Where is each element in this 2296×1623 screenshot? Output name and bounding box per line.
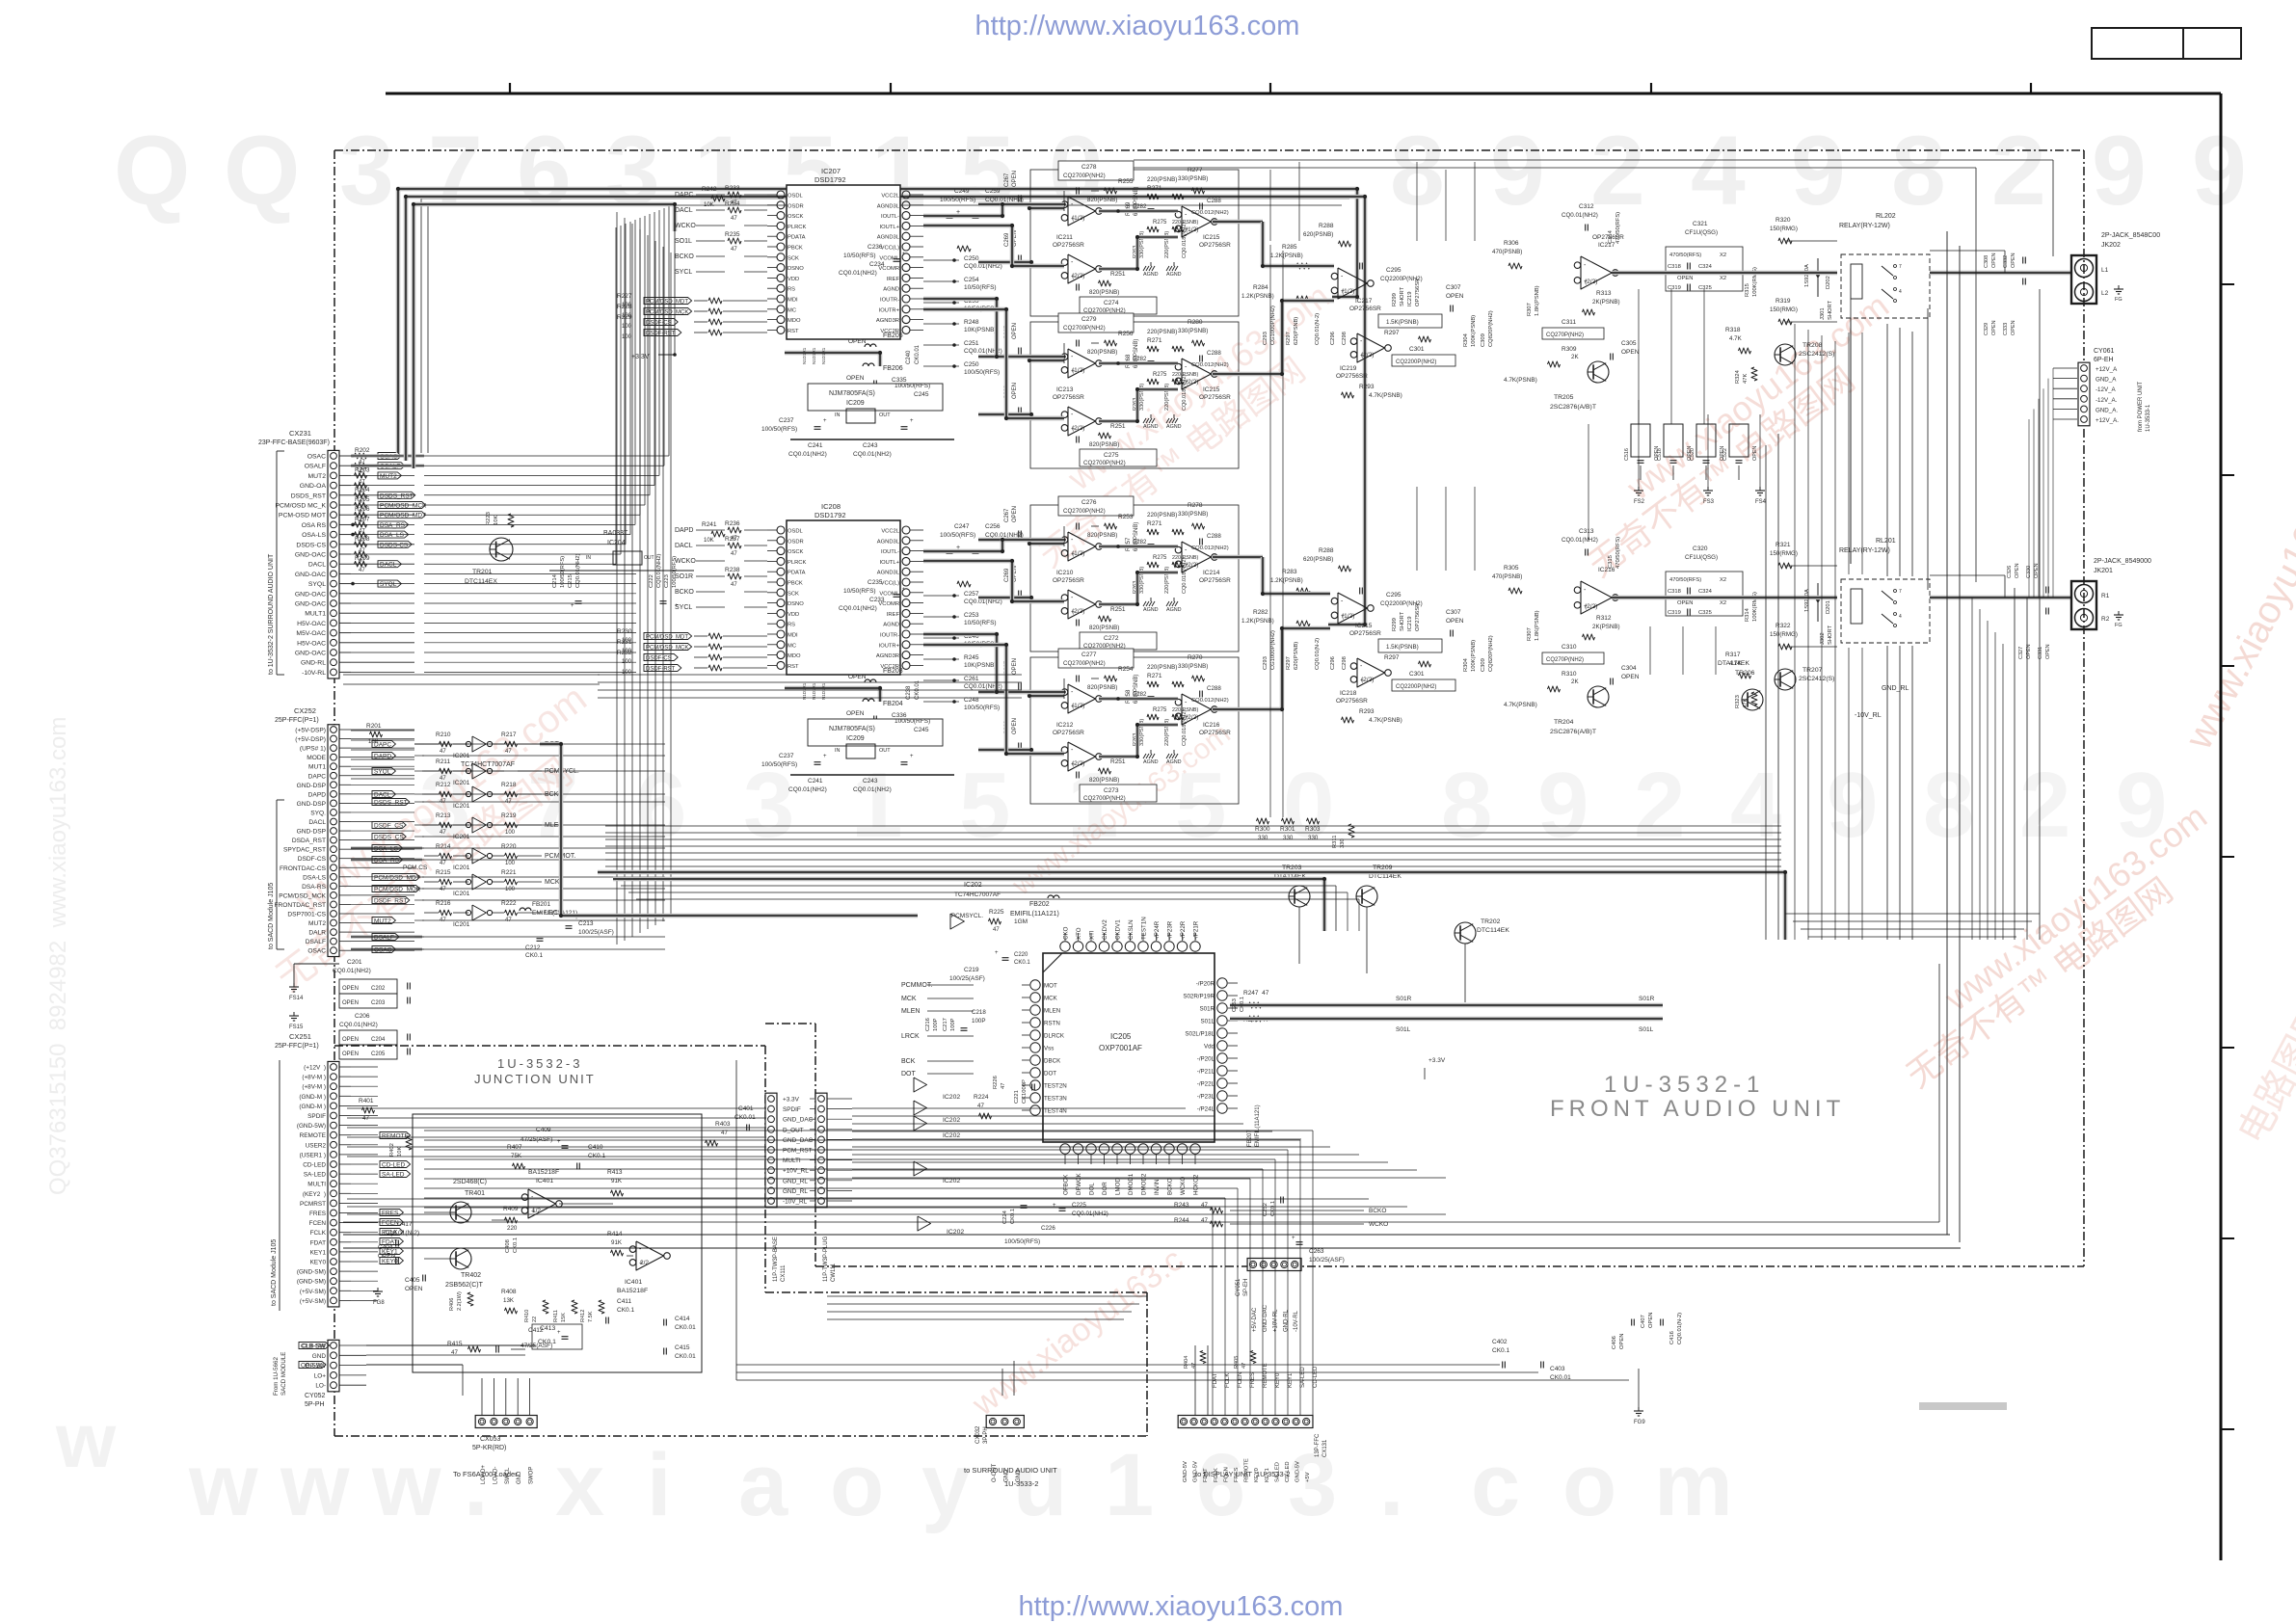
svg-text:10K(PSNB): 10K(PSNB) bbox=[964, 662, 997, 669]
svg-text:o: o bbox=[1562, 1436, 1616, 1534]
svg-text:C318: C318 bbox=[1668, 264, 1681, 270]
svg-text:470(PSNB): 470(PSNB) bbox=[1492, 573, 1522, 580]
svg-text:4: 4 bbox=[1899, 614, 1902, 620]
svg-text:CQ2700P(NH2): CQ2700P(NH2) bbox=[1083, 795, 1126, 802]
svg-text:9: 9 bbox=[1490, 116, 1545, 226]
svg-text:2.2(1W): 2.2(1W) bbox=[457, 1291, 463, 1311]
svg-text:IOUTR+: IOUTR+ bbox=[879, 307, 900, 313]
svg-text:100/50(RFS): 100/50(RFS) bbox=[964, 369, 1000, 376]
connector CY051 bbox=[1247, 1259, 1301, 1271]
svg-text:DAPC: DAPC bbox=[374, 742, 391, 749]
svg-text:100/25(ASF): 100/25(ASF) bbox=[949, 975, 985, 982]
svg-text:o: o bbox=[830, 1436, 884, 1534]
svg-text:CLB-SW: CLB-SW bbox=[301, 1344, 326, 1350]
svg-text:820(PSNB): 820(PSNB) bbox=[1089, 777, 1119, 784]
svg-text:5: 5 bbox=[959, 754, 1010, 857]
op-amp IC217 first half bbox=[1338, 268, 1367, 299]
ground FG jack201 bbox=[2118, 611, 2120, 615]
pin 40 CKDV1 bbox=[1112, 942, 1122, 951]
svg-text:FB202: FB202 bbox=[1029, 901, 1050, 908]
svg-text:330: 330 bbox=[1258, 835, 1268, 841]
svg-text:R271: R271 bbox=[1147, 520, 1162, 527]
svg-text:C256: C256 bbox=[985, 523, 1001, 530]
svg-text:w: w bbox=[371, 1436, 441, 1534]
wire right verticals bbox=[1946, 231, 1948, 1235]
svg-text:PCM/DSD_MDT: PCM/DSD_MDT bbox=[646, 635, 688, 641]
svg-text:R402: R402 bbox=[389, 1143, 395, 1157]
svg-text:IOUTR-: IOUTR- bbox=[880, 633, 899, 639]
svg-text:+: + bbox=[995, 950, 999, 956]
svg-text:R212: R212 bbox=[436, 782, 451, 788]
wire stage2 verticals upper bbox=[1638, 289, 1640, 424]
pin 37 -/P24R bbox=[1151, 942, 1161, 951]
svg-text:R244: R244 bbox=[1174, 1217, 1189, 1224]
svg-text:R288: R288 bbox=[1319, 223, 1334, 229]
svg-text:C325: C325 bbox=[1698, 285, 1712, 291]
svg-text:PCM/DSD_MCK: PCM/DSD_MCK bbox=[646, 646, 688, 652]
svg-text:R288: R288 bbox=[1319, 547, 1334, 554]
svg-text:FG: FG bbox=[2115, 623, 2122, 628]
svg-text:1: 1 bbox=[1105, 1436, 1154, 1534]
svg-text:CX032: CX032 bbox=[975, 1425, 981, 1444]
svg-text:10K: 10K bbox=[494, 516, 499, 525]
wire stage2 verticals lower bbox=[1649, 626, 1651, 675]
pin 4 RSTN bbox=[1030, 1018, 1040, 1027]
resistor R248 bbox=[957, 246, 971, 252]
svg-text:(2/2): (2/2) bbox=[1186, 379, 1198, 386]
svg-text:620(PSNB): 620(PSNB) bbox=[1303, 556, 1333, 563]
pin 8 bbox=[777, 264, 785, 272]
wires junction amp bbox=[424, 1211, 450, 1213]
svg-text:DOT: DOT bbox=[1044, 1071, 1056, 1078]
svg-text:-/P21L: -/P21L bbox=[1197, 1069, 1215, 1076]
svg-text:DSDS_RST: DSDS_RST bbox=[291, 492, 326, 499]
pin 10 bbox=[777, 284, 785, 292]
svg-text:GND-DSP: GND-DSP bbox=[297, 801, 327, 808]
capacitor C272 bbox=[1076, 620, 1078, 626]
svg-text:http://www.xiaoyu163.com: http://www.xiaoyu163.com bbox=[1019, 1591, 1344, 1622]
svg-text:C257: C257 bbox=[964, 591, 979, 598]
svg-text:R242: R242 bbox=[702, 186, 717, 193]
svg-text:6: 6 bbox=[517, 116, 572, 226]
svg-text:FS3: FS3 bbox=[1703, 499, 1715, 505]
svg-text:C295: C295 bbox=[1386, 592, 1402, 599]
transistor TR402 2SB562 bbox=[450, 1248, 471, 1269]
pin 9 bbox=[777, 274, 785, 281]
svg-text:R251: R251 bbox=[1110, 271, 1126, 278]
pin 31 S01R bbox=[1217, 1003, 1227, 1013]
svg-text:OPEN: OPEN bbox=[1012, 323, 1018, 339]
wire horizontal rows y1408-1432 bbox=[736, 1364, 1500, 1366]
svg-text:220(PSNB): 220(PSNB) bbox=[1164, 384, 1170, 411]
pin 23 -/P24L bbox=[1217, 1104, 1227, 1113]
svg-text:C217: C217 bbox=[943, 1018, 948, 1031]
svg-text:GND_RL: GND_RL bbox=[783, 1178, 808, 1184]
svg-text:R231: R231 bbox=[617, 639, 632, 646]
svg-text:CG1000P(NH2): CG1000P(NH2) bbox=[1270, 630, 1276, 670]
svg-text:SYQL: SYQL bbox=[380, 581, 397, 588]
junction dots bbox=[351, 454, 355, 458]
svg-text:C233: C233 bbox=[869, 597, 885, 603]
ground FG9 bbox=[1638, 1407, 1640, 1411]
svg-text:R285: R285 bbox=[1282, 244, 1297, 251]
svg-text:75K: 75K bbox=[511, 1153, 522, 1159]
svg-text:OPEN: OPEN bbox=[1621, 674, 1640, 680]
svg-text:CK0.1: CK0.1 bbox=[1010, 1209, 1016, 1224]
svg-text:3: 3 bbox=[605, 116, 660, 226]
svg-text:OPEN: OPEN bbox=[1648, 1313, 1654, 1328]
svg-text:1U-3532-3: 1U-3532-3 bbox=[497, 1056, 582, 1071]
buffer IC201 bbox=[472, 874, 486, 890]
svg-text:IN: IN bbox=[835, 748, 841, 754]
svg-text:S01R: S01R bbox=[1639, 996, 1655, 1002]
svg-text:TR402: TR402 bbox=[461, 1272, 481, 1279]
svg-text:MDO: MDO bbox=[788, 318, 801, 324]
svg-text:(GND-M ): (GND-M ) bbox=[299, 1094, 326, 1101]
svg-text:CW111: CW111 bbox=[831, 1263, 837, 1282]
svg-text:1U-3532-1: 1U-3532-1 bbox=[1604, 1072, 1765, 1098]
wire bundle CX252 to right bbox=[351, 730, 414, 732]
svg-text:H5V-OAC: H5V-OAC bbox=[297, 621, 326, 627]
svg-text:VDD: VDD bbox=[788, 612, 799, 618]
svg-text:R234: R234 bbox=[725, 200, 740, 207]
svg-text:GND-DSP: GND-DSP bbox=[297, 783, 327, 789]
svg-text:XTI: XTI bbox=[1089, 930, 1096, 940]
svg-text:C250: C250 bbox=[964, 255, 979, 262]
svg-text:AGND: AGND bbox=[1143, 607, 1159, 613]
bus S01R S01L bbox=[1230, 1003, 1663, 1008]
svg-text:CQ0.01(NH2): CQ0.01(NH2) bbox=[788, 451, 827, 458]
buffer IC201 bbox=[472, 848, 486, 864]
svg-text:DMOD2: DMOD2 bbox=[1141, 1173, 1148, 1195]
svg-text:CQ0.01(NH2): CQ0.01(NH2) bbox=[853, 786, 892, 793]
wire verticals far right column bbox=[1971, 598, 1973, 940]
svg-text:QQ376315150 8924982 www.xiao: QQ376315150 8924982 www.xiaoyu163.com bbox=[45, 717, 71, 1195]
svg-text:100/50(RFS): 100/50(RFS) bbox=[894, 383, 930, 389]
svg-text:DSDF-RST: DSDF-RST bbox=[646, 332, 676, 337]
svg-text:-10V_RL: -10V_RL bbox=[783, 1199, 808, 1206]
wires junction bottom bbox=[366, 1344, 535, 1346]
pin 38 TEST1N bbox=[1138, 942, 1148, 951]
svg-text:C307: C307 bbox=[1446, 609, 1461, 616]
svg-text:C253: C253 bbox=[1232, 998, 1238, 1012]
svg-text:C223: C223 bbox=[664, 574, 670, 588]
pin 1 bbox=[777, 191, 785, 199]
svg-text:NJM7805FA(S): NJM7805FA(S) bbox=[829, 390, 875, 397]
resistor R255 bbox=[1105, 188, 1117, 194]
svg-text:2SC2412(S): 2SC2412(S) bbox=[1799, 676, 1834, 682]
pin 8 bbox=[777, 599, 785, 607]
svg-text:CQ0.01(N-2): CQ0.01(N-2) bbox=[1315, 638, 1321, 670]
svg-text:C319: C319 bbox=[1668, 285, 1681, 291]
svg-text:C267: C267 bbox=[1004, 508, 1010, 522]
svg-text:MCK: MCK bbox=[1044, 996, 1058, 1002]
svg-text:-/P20L: -/P20L bbox=[1197, 1056, 1215, 1063]
wire TR transistors down bbox=[1298, 907, 1300, 964]
pin 1 MOT bbox=[1030, 980, 1040, 990]
svg-text:IC219: IC219 bbox=[1407, 292, 1413, 306]
svg-text:OPEN: OPEN bbox=[2015, 563, 2020, 578]
svg-text:C273: C273 bbox=[1104, 787, 1119, 794]
svg-text:R313: R313 bbox=[1596, 290, 1612, 297]
svg-text:CKDV2: CKDV2 bbox=[1102, 919, 1108, 940]
svg-text:330(PSNB): 330(PSNB) bbox=[1178, 175, 1208, 182]
svg-text:GND-5V: GND-5V bbox=[1295, 1461, 1301, 1482]
svg-text:+3.3V: +3.3V bbox=[783, 1097, 800, 1104]
svg-text:C333: C333 bbox=[2003, 323, 2009, 335]
pin 7 bbox=[777, 253, 785, 261]
svg-text:(2/2): (2/2) bbox=[1361, 352, 1374, 359]
svg-text:C278: C278 bbox=[1081, 164, 1097, 171]
resistor R211 bbox=[440, 768, 452, 774]
svg-text:100: 100 bbox=[622, 324, 632, 330]
svg-text:OFBCK: OFBCK bbox=[1063, 1174, 1070, 1195]
svg-text:100/50(RFS): 100/50(RFS) bbox=[761, 426, 797, 433]
resistors middle bbox=[1147, 681, 1159, 687]
analog ground bbox=[1143, 418, 1146, 423]
svg-text:C324: C324 bbox=[1698, 264, 1713, 270]
svg-text:330: 330 bbox=[1283, 835, 1294, 841]
svg-text:CY051: CY051 bbox=[1236, 1278, 1241, 1296]
pin 11 TEST4N bbox=[1030, 1105, 1040, 1115]
svg-text:OP2756SR: OP2756SR bbox=[1053, 394, 1084, 401]
svg-text:BCKO: BCKO bbox=[1369, 1208, 1386, 1214]
wire extra band lines bbox=[628, 891, 1348, 893]
svg-text:(+12V ): (+12V ) bbox=[304, 1065, 326, 1072]
svg-text:R312: R312 bbox=[1596, 615, 1612, 622]
svg-text:PCM/DSD_MCK: PCM/DSD_MCK bbox=[279, 892, 326, 899]
svg-text:w: w bbox=[280, 1436, 350, 1534]
svg-text:FCEN: FCEN bbox=[309, 1220, 327, 1227]
svg-text:BCKO: BCKO bbox=[1167, 1178, 1174, 1195]
svg-text:R320: R320 bbox=[1775, 217, 1791, 224]
connector CX131 bbox=[1178, 1416, 1313, 1428]
buffer IC202 3 bbox=[914, 1116, 927, 1131]
svg-text:AGND: AGND bbox=[1166, 424, 1182, 430]
analog ground bbox=[1143, 754, 1146, 758]
svg-text:KEY0: KEY0 bbox=[310, 1260, 327, 1266]
op-amp IC213 (1/2) bbox=[1068, 349, 1096, 378]
buffer IC201 bbox=[472, 817, 486, 833]
svg-text:RL201: RL201 bbox=[1876, 538, 1896, 545]
svg-text:C219: C219 bbox=[964, 967, 979, 973]
svg-text:2K(PSNB): 2K(PSNB) bbox=[1592, 624, 1620, 630]
svg-text:C295: C295 bbox=[1386, 267, 1402, 274]
svg-text:FS4: FS4 bbox=[1755, 499, 1767, 505]
svg-text:IC201: IC201 bbox=[453, 865, 470, 871]
pin 22 HCKO2 bbox=[1190, 1144, 1200, 1154]
svg-text:DAPD: DAPD bbox=[675, 527, 693, 534]
svg-text:FG: FG bbox=[2115, 297, 2122, 303]
svg-text:y: y bbox=[921, 1436, 971, 1534]
wires out of relay area down bbox=[1850, 299, 1852, 564]
ground FS15 bbox=[293, 1012, 295, 1016]
resistors middle bbox=[1147, 529, 1159, 535]
svg-text:C206: C206 bbox=[355, 1013, 370, 1020]
svg-text:RST: RST bbox=[788, 664, 799, 670]
svg-text:47: 47 bbox=[440, 861, 446, 866]
svg-text:1/2: 1/2 bbox=[532, 1208, 541, 1214]
pin 26 -/P21L bbox=[1217, 1066, 1227, 1076]
svg-text:TEST1N: TEST1N bbox=[1141, 917, 1148, 940]
pin 9 TEST2N bbox=[1030, 1080, 1040, 1090]
svg-text:SHORT: SHORT bbox=[1400, 611, 1405, 631]
svg-text:C213: C213 bbox=[578, 920, 594, 927]
svg-text:GND-OAC: GND-OAC bbox=[295, 552, 326, 559]
svg-text:R270: R270 bbox=[1188, 654, 1203, 661]
svg-text:91K: 91K bbox=[611, 1239, 623, 1246]
svg-text:MDI: MDI bbox=[788, 633, 798, 639]
svg-text:R275: R275 bbox=[1153, 372, 1167, 378]
svg-text:DSDS-CS: DSDS-CS bbox=[296, 542, 326, 548]
svg-text:R307: R307 bbox=[1527, 627, 1533, 641]
svg-text:R300: R300 bbox=[1255, 826, 1270, 833]
capacitor C277 bbox=[1058, 649, 1134, 668]
svg-text:R301: R301 bbox=[1280, 826, 1295, 833]
svg-text:R404: R404 bbox=[1184, 1356, 1189, 1369]
ground FG8 bbox=[377, 1288, 379, 1291]
capacitor C282 bbox=[1148, 696, 1155, 698]
svg-text:CQ2700P(NH2): CQ2700P(NH2) bbox=[1063, 325, 1106, 332]
svg-text:IC219: IC219 bbox=[1340, 365, 1357, 372]
svg-text:BA15218F: BA15218F bbox=[617, 1288, 648, 1294]
svg-text:M5V-OAC: M5V-OAC bbox=[296, 630, 326, 637]
svg-text:CK0.1: CK0.1 bbox=[617, 1307, 634, 1314]
opamp 2/2 lower bbox=[1357, 658, 1385, 687]
svg-text:150(RMG): 150(RMG) bbox=[1770, 226, 1798, 232]
resistor R218 bbox=[505, 791, 518, 797]
svg-text:CY052: CY052 bbox=[305, 1393, 326, 1399]
op-amp IC211 (2/2) bbox=[1068, 254, 1096, 283]
svg-text:C406: C406 bbox=[1612, 1336, 1617, 1349]
svg-text:-/P21R: -/P21R bbox=[1193, 920, 1200, 940]
svg-text:DSDF_RST: DSDF_RST bbox=[374, 898, 407, 905]
op-amp IC215 output bbox=[1182, 206, 1211, 237]
wire horizontal DAPC bbox=[414, 743, 439, 745]
bus out of block bbox=[1213, 372, 1263, 377]
svg-text:(GND-5W): (GND-5W) bbox=[297, 1123, 326, 1130]
svg-text:C522: C522 bbox=[1722, 448, 1728, 461]
svg-text:(2/2): (2/2) bbox=[1186, 714, 1198, 721]
svg-text:1.2K(PSNB): 1.2K(PSNB) bbox=[1270, 577, 1303, 584]
svg-text:FDAT: FDAT bbox=[310, 1239, 326, 1246]
svg-text:330(PSNB): 330(PSNB) bbox=[1139, 719, 1145, 746]
svg-text:MUT2: MUT2 bbox=[307, 473, 326, 480]
svg-text:VDD: VDD bbox=[788, 277, 799, 282]
svg-text:CX131: CX131 bbox=[1322, 1439, 1328, 1457]
resistor R256 bbox=[1105, 340, 1117, 346]
svg-text:4.7K: 4.7K bbox=[1729, 335, 1743, 342]
svg-text:4.7K(PSNB): 4.7K(PSNB) bbox=[1369, 717, 1402, 724]
svg-text:9: 9 bbox=[1791, 116, 1846, 226]
svg-text:10/50(RFS): 10/50(RFS) bbox=[843, 253, 876, 259]
svg-text:CQ2200P(NH2): CQ2200P(NH2) bbox=[1396, 684, 1436, 690]
svg-text:C414: C414 bbox=[675, 1316, 690, 1322]
wire CX053 horizontals bbox=[366, 1354, 525, 1356]
svg-text:FG8: FG8 bbox=[373, 1300, 385, 1306]
svg-text:C516: C516 bbox=[1624, 448, 1630, 461]
svg-text:AGND3L: AGND3L bbox=[877, 203, 900, 209]
wires inside block bbox=[1099, 361, 1178, 365]
svg-text:MCK: MCK bbox=[545, 879, 560, 886]
svg-text:FB206: FB206 bbox=[883, 365, 903, 372]
svg-text:C249: C249 bbox=[954, 188, 970, 195]
svg-text:+: + bbox=[571, 603, 574, 609]
svg-text:CQ0.01(N-2): CQ0.01(N-2) bbox=[384, 1230, 419, 1237]
svg-text:OPEN: OPEN bbox=[1012, 506, 1018, 522]
svg-text:(1/2): (1/2) bbox=[1072, 367, 1084, 374]
resistor R278 zigzag bbox=[1192, 523, 1205, 529]
svg-text:7.5K: 7.5K bbox=[588, 1311, 594, 1322]
svg-text:10K: 10K bbox=[704, 538, 714, 544]
svg-text:TR204: TR204 bbox=[1554, 719, 1574, 726]
wires inside block bbox=[1099, 209, 1178, 213]
svg-text:AGND: AGND bbox=[1143, 272, 1159, 278]
svg-text:From 1U-5662: From 1U-5662 bbox=[273, 1357, 280, 1396]
svg-text:+: + bbox=[902, 252, 906, 257]
svg-text:OPEN: OPEN bbox=[1621, 349, 1640, 356]
pin 20 BCKO bbox=[1164, 1144, 1174, 1154]
resistor R280 zigzag bbox=[1192, 340, 1205, 346]
svg-text:(2/2): (2/2) bbox=[1072, 425, 1084, 432]
svg-text:620(PSNB): 620(PSNB) bbox=[1303, 231, 1333, 238]
svg-text:4: 4 bbox=[1691, 116, 1746, 226]
pink watermarks bbox=[269, 751, 580, 999]
svg-text:OSDR: OSDR bbox=[788, 203, 804, 209]
wire long horizontals lower2 bbox=[343, 1234, 1950, 1236]
svg-text:330(PSNB): 330(PSNB) bbox=[1178, 663, 1208, 670]
svg-text:KEY1: KEY1 bbox=[310, 1249, 327, 1256]
svg-text:(1/2): (1/2) bbox=[1186, 226, 1198, 233]
svg-text:C309: C309 bbox=[1481, 333, 1486, 347]
svg-text:FCLK: FCLK bbox=[310, 1230, 327, 1237]
op-amp IC210 (1/2) bbox=[1068, 532, 1096, 561]
svg-text:FS15: FS15 bbox=[289, 1024, 304, 1030]
buffer IC201 bbox=[472, 763, 486, 779]
svg-text:MODE: MODE bbox=[307, 755, 326, 761]
svg-text:620(PSNB): 620(PSNB) bbox=[1294, 642, 1299, 670]
svg-text:OSDL: OSDL bbox=[788, 529, 804, 535]
svg-text:DSDS_CS: DSDS_CS bbox=[374, 835, 404, 841]
svg-text:C202: C202 bbox=[371, 986, 386, 992]
svg-text:R275: R275 bbox=[1153, 707, 1167, 713]
svg-text:R304: R304 bbox=[1463, 333, 1469, 347]
svg-text:2K: 2K bbox=[1571, 354, 1579, 360]
svg-text:220: 220 bbox=[507, 1225, 518, 1232]
svg-text:R297: R297 bbox=[1286, 332, 1292, 345]
svg-text:IC201: IC201 bbox=[453, 780, 470, 786]
bus loop main left bbox=[398, 189, 1357, 453]
pin 36 -/P23R bbox=[1164, 942, 1174, 951]
svg-text:MUT2: MUT2 bbox=[374, 918, 391, 925]
svg-text:SP-EH: SP-EH bbox=[1243, 1279, 1249, 1296]
svg-text:47: 47 bbox=[440, 799, 446, 805]
svg-text:2: 2 bbox=[1590, 116, 1645, 226]
svg-text:(1/2): (1/2) bbox=[1072, 550, 1084, 557]
svg-text:C405: C405 bbox=[405, 1277, 420, 1284]
op-amp IC215 output bbox=[1182, 359, 1211, 389]
svg-text:C204: C204 bbox=[371, 1037, 386, 1043]
svg-text:VCC(L): VCC(L) bbox=[881, 581, 899, 587]
svg-text:R280: R280 bbox=[1188, 319, 1203, 326]
svg-text:DFWCK: DFWCK bbox=[1076, 1172, 1082, 1195]
svg-text:R323: R323 bbox=[1735, 695, 1741, 708]
svg-text:CY061: CY061 bbox=[2094, 348, 2115, 355]
svg-text:CD-LED: CD-LED bbox=[303, 1162, 326, 1169]
svg-text:820(PSNB): 820(PSNB) bbox=[1087, 349, 1117, 356]
redaction bar bbox=[1919, 1402, 2007, 1410]
svg-text:C311: C311 bbox=[1562, 319, 1576, 326]
